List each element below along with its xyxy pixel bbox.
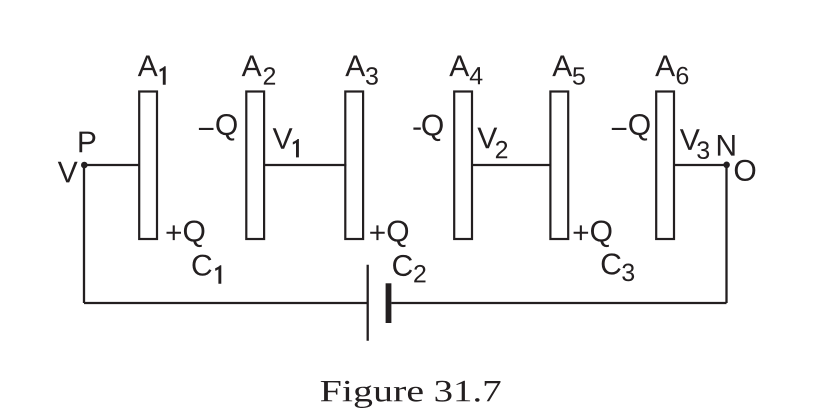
label -Q of capacitor C2 <box>413 115 442 142</box>
label -Q of capacitor C3 <box>612 114 650 141</box>
label C2 <box>393 255 412 276</box>
wire plate A4 to plate A5 <box>472 164 551 166</box>
label +Q of capacitor C1 <box>167 221 205 248</box>
wire plate A6 to node N <box>674 164 727 166</box>
battery positive plate <box>367 265 369 341</box>
label V3 <box>680 129 700 150</box>
label O <box>735 160 756 181</box>
capacitor plate A5 <box>550 92 568 240</box>
label V1 <box>273 128 293 149</box>
label P <box>79 132 95 153</box>
label A2 <box>242 56 262 77</box>
capacitor plate A2 <box>246 92 264 240</box>
label A5 <box>552 56 572 77</box>
label A3 <box>345 56 365 77</box>
wire left vertical from node P <box>83 165 85 303</box>
wire battery to bottom right <box>391 302 726 304</box>
node P junction dot <box>81 162 88 169</box>
label C3 <box>602 253 621 274</box>
wire bottom left to battery <box>84 302 368 304</box>
label V2 <box>477 128 497 149</box>
capacitor plate A3 <box>345 92 363 240</box>
label +Q of capacitor C2 <box>370 221 408 248</box>
wire plate A2 to plate A3 <box>264 164 346 166</box>
label +Q of capacitor C3 <box>574 221 612 248</box>
label C1 <box>193 255 212 276</box>
capacitor plate A6 <box>656 92 674 240</box>
capacitor plate A4 <box>454 92 472 240</box>
label A6 <box>655 56 675 77</box>
battery negative plate <box>386 283 392 323</box>
caption Figure 31.7 <box>321 381 423 408</box>
node N junction dot <box>723 162 730 169</box>
label A1 <box>138 56 158 77</box>
label V <box>58 162 78 183</box>
wire node P to plate A1 <box>84 164 139 166</box>
label N <box>718 135 735 156</box>
capacitor plate A1 <box>139 92 157 240</box>
label A4 <box>449 56 469 77</box>
wire right vertical from node N <box>725 165 727 303</box>
label -Q of capacitor C1 <box>199 114 237 141</box>
